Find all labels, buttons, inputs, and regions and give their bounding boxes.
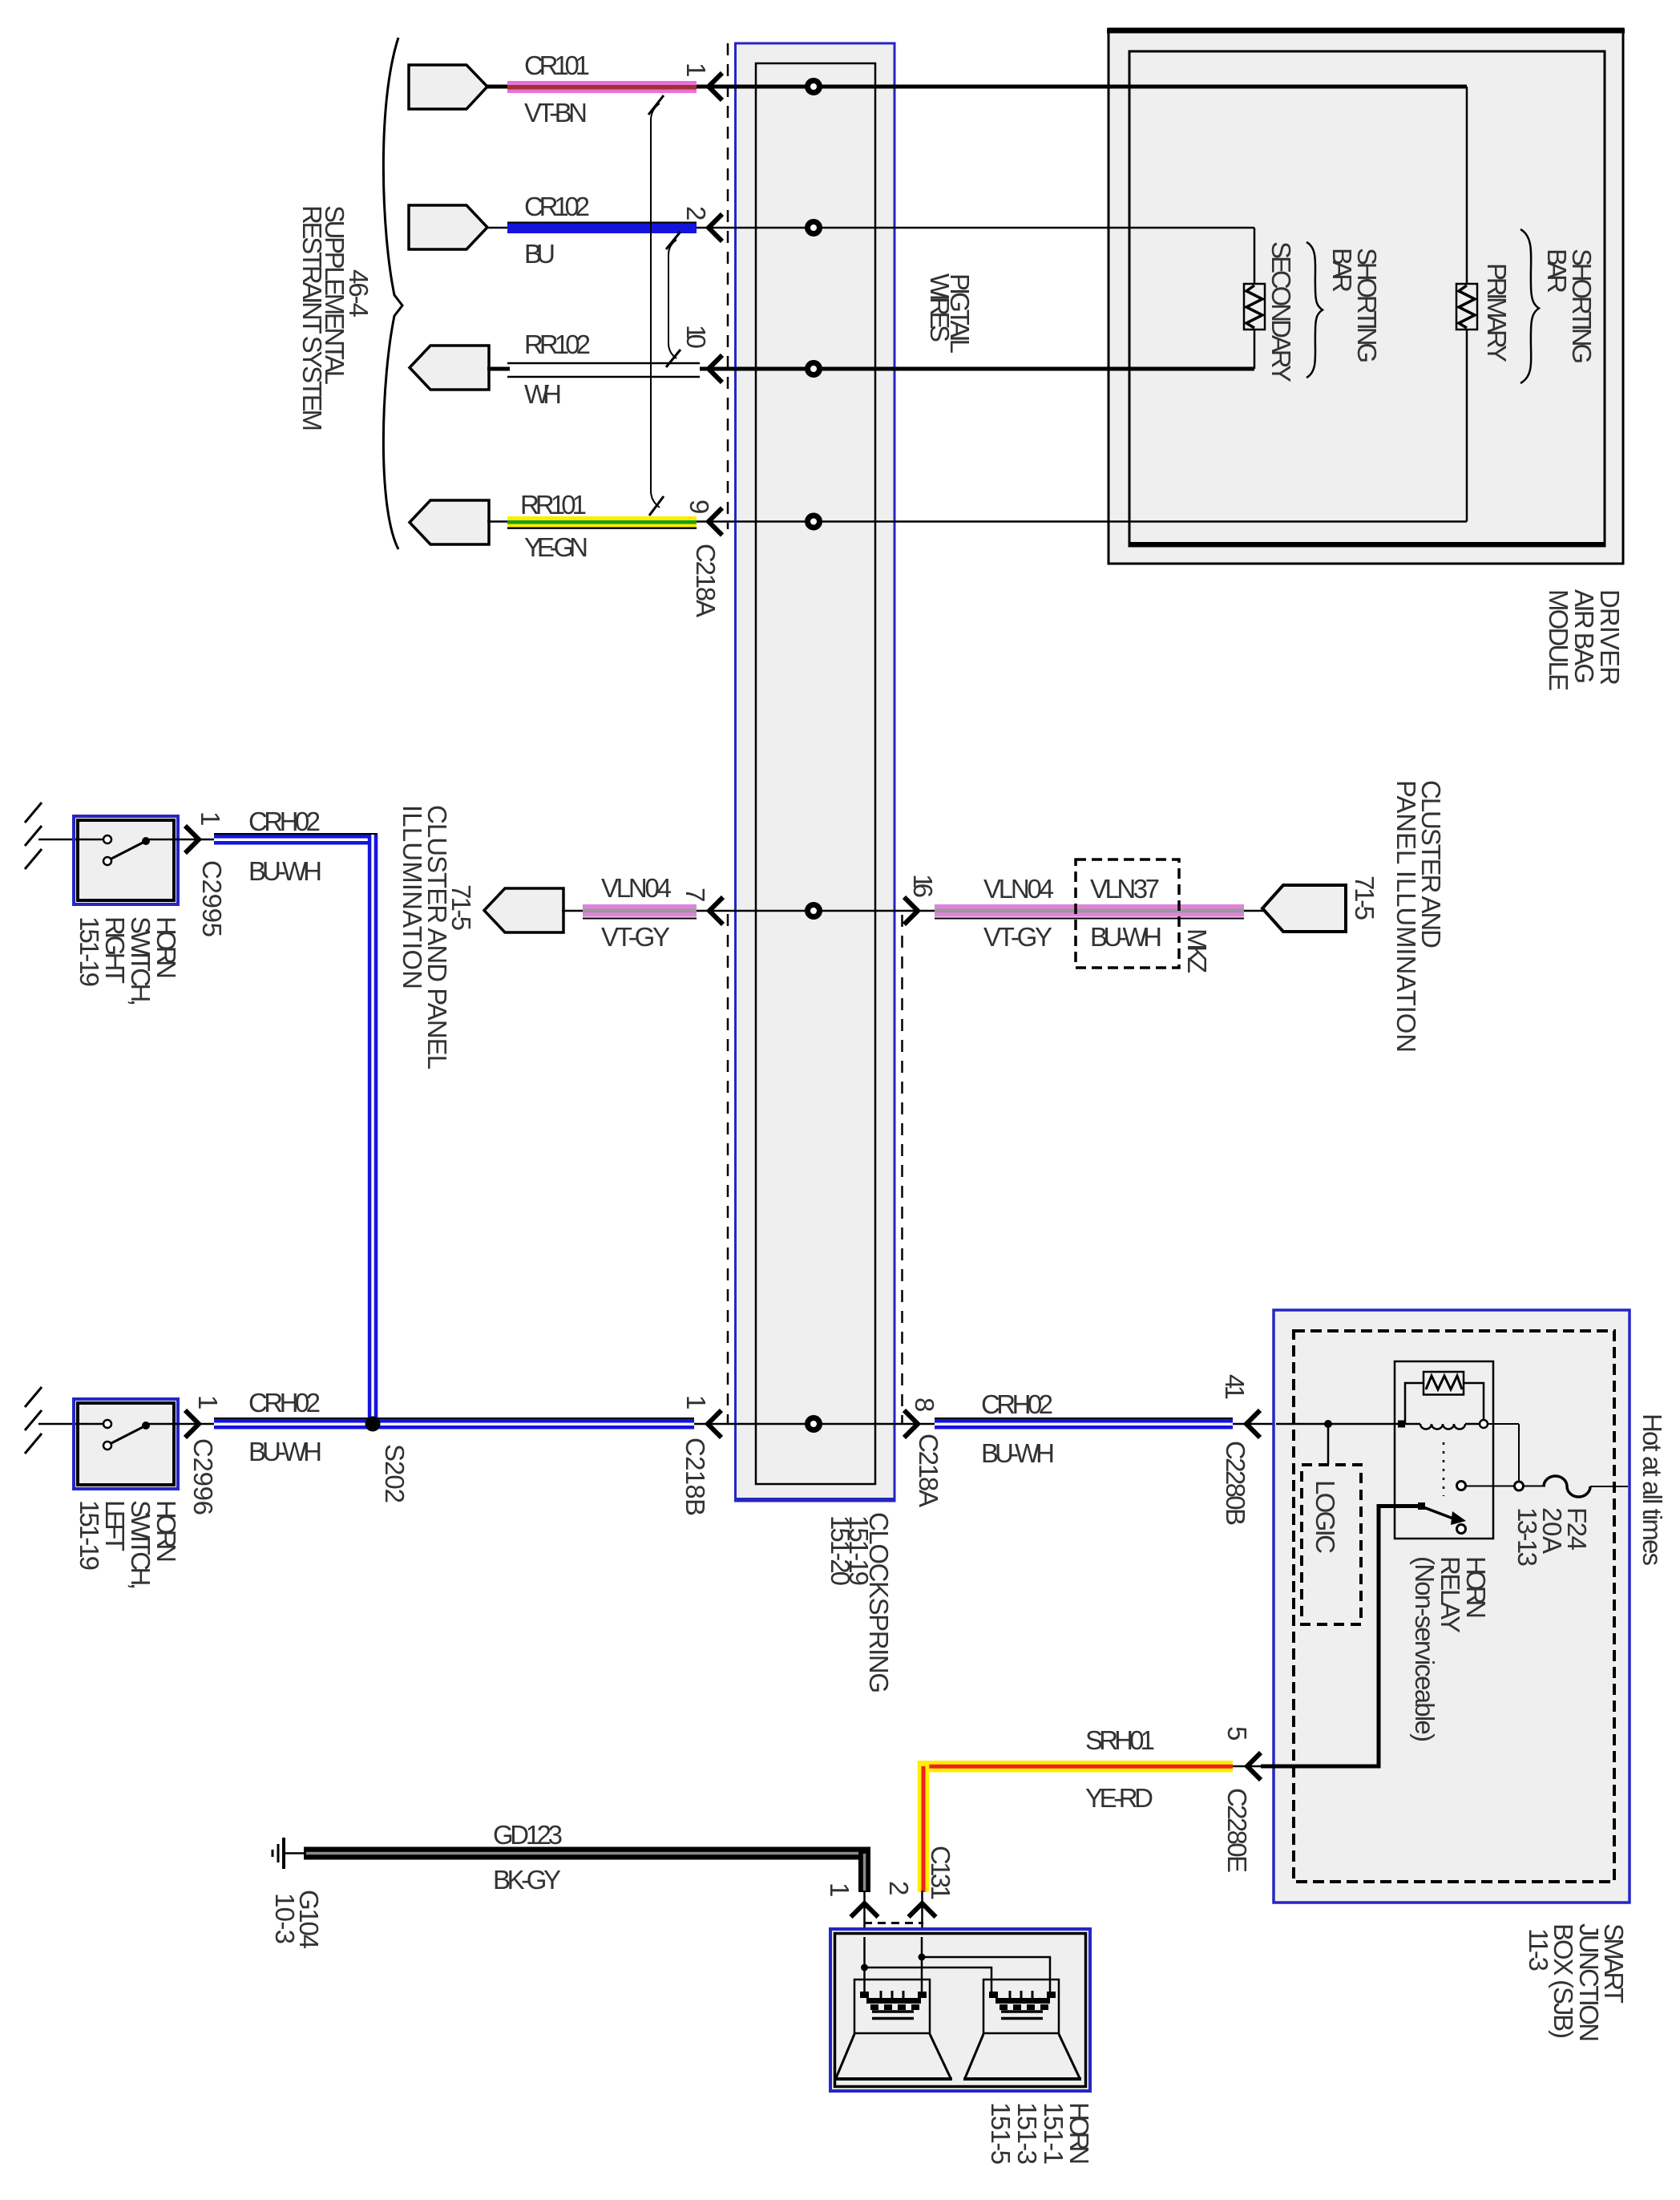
- fuse F24: [1544, 1476, 1590, 1497]
- clockspring box: [736, 43, 895, 1501]
- wire GD123 to horn: [863, 1891, 866, 1980]
- wire CR101 to module: [697, 85, 1467, 89]
- wire CRH02 band lower BU-WH: [214, 1418, 694, 1430]
- wire to LOGIC: [1327, 1424, 1330, 1465]
- splice S202: [365, 1417, 381, 1432]
- chevron pin5: [1247, 1753, 1261, 1780]
- chevron pin1 C218B: [708, 1410, 721, 1438]
- label SHORTING BAR secondary: [1327, 248, 1382, 363]
- svg-text:CR101: CR101: [524, 51, 590, 80]
- chevron pin10: [709, 355, 722, 382]
- wire SRH01 to horn: [921, 1891, 923, 1980]
- svg-text:BU-WH: BU-WH: [248, 1437, 322, 1466]
- pigtail terminal row4: [808, 516, 820, 528]
- svg-text:71-5: 71-5: [1350, 876, 1379, 920]
- chevron pin1: [709, 73, 722, 100]
- svg-text:C131: C131: [926, 1846, 955, 1900]
- wire RR101 to module: [697, 520, 1467, 523]
- wire SRH01 right stub: [1233, 1765, 1261, 1768]
- relay feed thick wire from pin5: [1261, 1506, 1420, 1767]
- wire CRH02 vertical band: [368, 835, 378, 1429]
- wire CR102 band BU: [507, 223, 697, 234]
- wire CRH02 band right BU-WH: [935, 1418, 1233, 1430]
- wire coil to fuse branch: [1488, 1424, 1519, 1482]
- connector arrow row3: [410, 346, 489, 390]
- clockspring inner box: [756, 63, 875, 1484]
- svg-text:SRH01: SRH01: [1085, 1725, 1155, 1755]
- svg-text:16: 16: [908, 874, 938, 898]
- switch right contacts: [75, 835, 178, 865]
- wire GD123 band BK-GY: [304, 1847, 870, 1893]
- chevron pin9: [709, 508, 722, 536]
- svg-text:RR102: RR102: [524, 330, 591, 359]
- svg-text:151-1: 151-1: [1039, 2102, 1068, 2165]
- label DRIVER AIR BAG MODULE: [1544, 589, 1625, 691]
- chevron pin16: [904, 897, 918, 924]
- wire CRH02 line to clockspring: [694, 1423, 935, 1426]
- wire SRH01 band YE-RD: [918, 1761, 1233, 1892]
- svg-text:S202: S202: [380, 1444, 410, 1503]
- module outer top edge: [1107, 29, 1625, 34]
- svg-text:(Non-serviceable): (Non-serviceable): [1410, 1556, 1440, 1742]
- ground G104: [273, 1838, 305, 1869]
- svg-text:CRH02: CRH02: [248, 807, 321, 836]
- svg-text:C218B: C218B: [680, 1438, 710, 1516]
- wire CRH02 band upper BU-WH: [214, 834, 378, 845]
- svg-text:BU: BU: [524, 239, 555, 269]
- svg-text:9: 9: [685, 499, 714, 514]
- junction terminal fuse: [1515, 1482, 1524, 1490]
- wire fuse to edge: [1590, 1486, 1628, 1487]
- svg-text:PRIMARY: PRIMARY: [1482, 263, 1512, 362]
- chevron pin8: [904, 1410, 918, 1438]
- pigtail terminal VLN04: [808, 905, 820, 917]
- wire CRH02 right stub: [1233, 1423, 1276, 1426]
- svg-text:C2280E: C2280E: [1222, 1788, 1252, 1873]
- svg-text:1: 1: [825, 1883, 854, 1897]
- svg-text:MKZ: MKZ: [1182, 928, 1212, 973]
- wire CR101 band VT-BN: [507, 81, 697, 93]
- svg-text:151-5: 151-5: [986, 2102, 1016, 2165]
- label PIGTAIL WIRES: [925, 273, 975, 354]
- svg-text:YE-RD: YE-RD: [1085, 1783, 1153, 1813]
- svg-text:CR102: CR102: [524, 192, 590, 221]
- svg-text:41: 41: [1220, 1374, 1250, 1400]
- connector arrow cluster right: [1262, 885, 1346, 932]
- chevron pin7: [709, 897, 723, 924]
- horn switch right box: [74, 816, 178, 904]
- label CLUSTER AND PANEL ILLUMINATION right: [1391, 780, 1446, 1053]
- wire RR102 stub: [487, 367, 510, 371]
- SJB dashed inner box: [1294, 1331, 1614, 1882]
- secondary squib shorting bar resistor: [1244, 284, 1265, 330]
- svg-text:VLN37: VLN37: [1090, 874, 1160, 904]
- clockspring bottom edge: [735, 1498, 895, 1502]
- svg-text:C2280B: C2280B: [1221, 1441, 1250, 1526]
- MKZ dashed box: [1076, 859, 1179, 968]
- horn wiring: [861, 1937, 1050, 1994]
- svg-text:13-13: 13-13: [1512, 1507, 1542, 1567]
- svg-text:C2995: C2995: [197, 860, 227, 937]
- label CLOCKSPRING 151-19 151-20: [826, 1512, 894, 1693]
- chevron pin2: [709, 214, 722, 241]
- brace SRS: [383, 38, 402, 549]
- label SHORTING BAR primary: [1542, 249, 1597, 364]
- svg-text:5: 5: [1222, 1726, 1252, 1741]
- svg-text:151-19: 151-19: [75, 1500, 104, 1571]
- wire RR102 band WH: [507, 363, 700, 377]
- SJB box: [1274, 1310, 1630, 1903]
- wire stub switch left to band: [178, 1423, 216, 1426]
- svg-text:CRH02: CRH02: [981, 1389, 1053, 1419]
- svg-text:WIRES: WIRES: [925, 273, 955, 342]
- label G104 10-3: [270, 1890, 324, 1949]
- wire VLN04 line: [562, 910, 935, 912]
- air bag module outer box: [1109, 29, 1623, 564]
- wire CR101 stub: [486, 85, 510, 89]
- horn left symbol: [834, 1980, 952, 2079]
- svg-text:BAR: BAR: [1542, 249, 1572, 293]
- connector arrow row2: [409, 205, 487, 249]
- label HORN 151-1 151-3 151-5: [986, 2102, 1094, 2165]
- relay actuation dotted line: [1443, 1442, 1445, 1496]
- horn relay box: [1395, 1361, 1493, 1539]
- svg-text:1: 1: [681, 1395, 711, 1409]
- LOGIC dashed box: [1302, 1465, 1361, 1624]
- svg-text:VT-GY: VT-GY: [983, 922, 1052, 952]
- svg-text:10: 10: [681, 325, 711, 349]
- svg-text:CRH02: CRH02: [248, 1388, 321, 1417]
- svg-text:11-3: 11-3: [1524, 1928, 1553, 1972]
- connector arrow row4: [410, 500, 489, 544]
- horn switch left box: [74, 1399, 178, 1489]
- svg-text:GD123: GD123: [493, 1820, 563, 1850]
- primary squib shorting bar resistor: [1456, 284, 1477, 330]
- label HORN RELAY (Non-serviceable): [1410, 1556, 1491, 1742]
- horn assembly box: [830, 1929, 1090, 2091]
- svg-text:Hot at all times: Hot at all times: [1638, 1413, 1667, 1566]
- svg-text:SECONDARY: SECONDARY: [1266, 241, 1296, 382]
- dashed connector line C218B left: [727, 914, 729, 1424]
- svg-text:VT-BN: VT-BN: [524, 98, 588, 127]
- svg-text:VT-GY: VT-GY: [601, 922, 670, 952]
- relay coil: [1398, 1420, 1488, 1430]
- label SMART JUNCTION BOX (SJB) 11-3: [1524, 1923, 1629, 2042]
- label CLUSTER AND PANEL ILLUMINATION left: [398, 805, 452, 1070]
- relay blade: [1418, 1502, 1466, 1534]
- svg-text:C218A: C218A: [914, 1434, 943, 1507]
- bracket pins 2-10 group: [666, 232, 680, 367]
- svg-text:1: 1: [193, 1395, 223, 1409]
- wire RR101 band YE-GN: [507, 516, 697, 528]
- chevron horn pin2: [909, 1903, 936, 1917]
- chevron C2995: [185, 826, 199, 853]
- label HORN SWITCH RIGHT 151-19: [75, 916, 181, 1006]
- switch left contacts: [75, 1420, 178, 1450]
- horn right symbol: [963, 1980, 1081, 2079]
- brace primary shorting bar: [1520, 229, 1539, 383]
- svg-text:151-20: 151-20: [826, 1515, 855, 1586]
- svg-text:RESTRAINT SYSTEM: RESTRAINT SYSTEM: [297, 205, 327, 431]
- label SUPPLEMENTAL RESTRAINT SYSTEM: [297, 205, 349, 431]
- wire VLN04 band left VT-GY: [583, 904, 697, 919]
- wire contact to fuse: [1465, 1486, 1545, 1487]
- dashed connector line C218A right: [901, 915, 903, 1424]
- wire RR102 to module: [700, 367, 1254, 371]
- svg-text:YE-GN: YE-GN: [524, 532, 588, 562]
- svg-text:C2996: C2996: [188, 1438, 218, 1515]
- module inner box: [1129, 51, 1605, 546]
- module inner bottom edge: [1129, 542, 1605, 547]
- wire RR101 stub: [487, 520, 510, 523]
- svg-text:1: 1: [196, 811, 225, 826]
- wire VLN04 right stub: [1244, 910, 1265, 912]
- chevron horn pin1: [851, 1903, 878, 1917]
- svg-text:LOGIC: LOGIC: [1310, 1480, 1340, 1554]
- relay suppression resistor: [1405, 1372, 1484, 1424]
- svg-text:151-3: 151-3: [1012, 2102, 1042, 2165]
- connector arrow cluster left: [484, 888, 563, 932]
- svg-text:BU-WH: BU-WH: [981, 1438, 1055, 1468]
- svg-text:BK-GY: BK-GY: [493, 1865, 561, 1895]
- svg-text:VLN04: VLN04: [601, 873, 672, 903]
- wire CR102 stub: [486, 227, 510, 229]
- pigtail terminal row3: [808, 363, 820, 375]
- svg-text:VLN04: VLN04: [983, 874, 1054, 904]
- svg-text:10-3: 10-3: [270, 1893, 300, 1944]
- svg-text:MODULE: MODULE: [1544, 589, 1573, 691]
- label HORN SWITCH LEFT 151-19: [75, 1500, 181, 1590]
- dashed connector line C218A top: [727, 43, 729, 529]
- pigtail terminal CRH02: [808, 1418, 820, 1430]
- svg-text:2: 2: [884, 1881, 914, 1895]
- svg-text:BU-WH: BU-WH: [1090, 922, 1162, 952]
- svg-text:WH: WH: [524, 379, 562, 409]
- ground chassis left horn switch: [25, 1387, 75, 1454]
- chevron C2996: [185, 1410, 199, 1438]
- svg-text:151-19: 151-19: [75, 916, 104, 987]
- bracket C218A group: [648, 95, 664, 516]
- svg-text:7: 7: [680, 888, 710, 902]
- wire stub switch right to band: [178, 839, 216, 841]
- connector arrow row1: [409, 65, 487, 109]
- junction dot logic branch: [1324, 1420, 1332, 1428]
- relay fixed contact: [1457, 1482, 1466, 1490]
- wire into SJB pin41: [1276, 1423, 1401, 1426]
- svg-text:BU-WH: BU-WH: [248, 856, 322, 886]
- primary squib vertical wire: [1466, 87, 1468, 522]
- pigtail terminal row2: [808, 222, 820, 234]
- svg-text:2: 2: [681, 206, 711, 220]
- svg-text:8: 8: [910, 1397, 939, 1412]
- chevron pin41: [1246, 1410, 1260, 1438]
- svg-text:1: 1: [681, 63, 711, 77]
- secondary squib vertical wire: [1254, 228, 1256, 369]
- svg-text:PANEL ILLUMINATION: PANEL ILLUMINATION: [1391, 780, 1421, 1053]
- label F24 20A 13-13: [1512, 1507, 1592, 1567]
- svg-text:C218A: C218A: [691, 544, 721, 617]
- svg-text:RR101: RR101: [520, 490, 587, 520]
- pigtail terminal row1: [808, 81, 820, 93]
- ground chassis right horn switch: [25, 803, 75, 869]
- brace secondary shorting bar: [1306, 242, 1323, 378]
- wire CR102 to module: [697, 227, 1254, 229]
- dashed connector C131: [864, 1922, 923, 1924]
- wire VLN04 band right VT-GY: [935, 904, 1244, 919]
- svg-text:BAR: BAR: [1327, 248, 1357, 293]
- svg-text:ILLUMINATION: ILLUMINATION: [398, 805, 427, 989]
